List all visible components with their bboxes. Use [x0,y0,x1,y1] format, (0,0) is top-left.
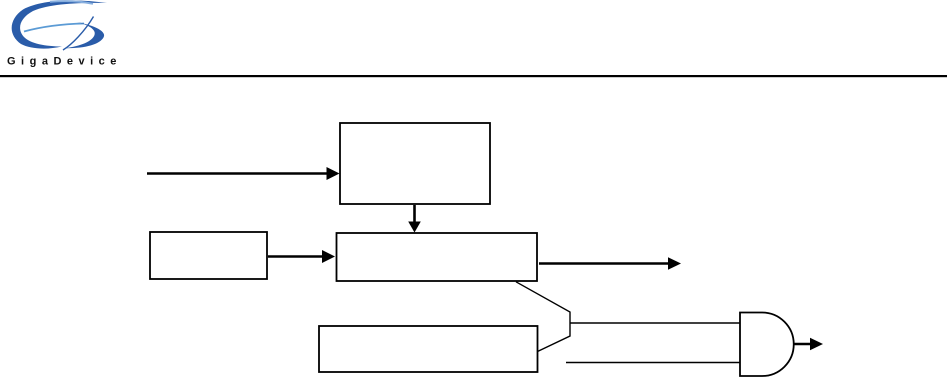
AND gate [740,313,794,377]
wire AND gate input 2 [566,362,741,364]
logo GigaDevice swoosh [12,1,107,50]
box top [340,123,490,204]
svg-text:GigaDevice: GigaDevice [7,56,122,68]
wire output arrow from AND gate [794,338,823,350]
header rule [0,75,947,77]
wire arrow left box to middle box [268,250,335,263]
box bottom [319,326,538,372]
wire arrow top box to middle box [408,205,421,233]
wire funnel join [516,282,570,352]
wire output arrow from middle box [539,257,681,269]
wire funnel to AND gate input 1 [570,322,741,324]
box middle [337,233,538,281]
wire input arrow to top box [147,167,340,180]
box left [150,232,267,279]
